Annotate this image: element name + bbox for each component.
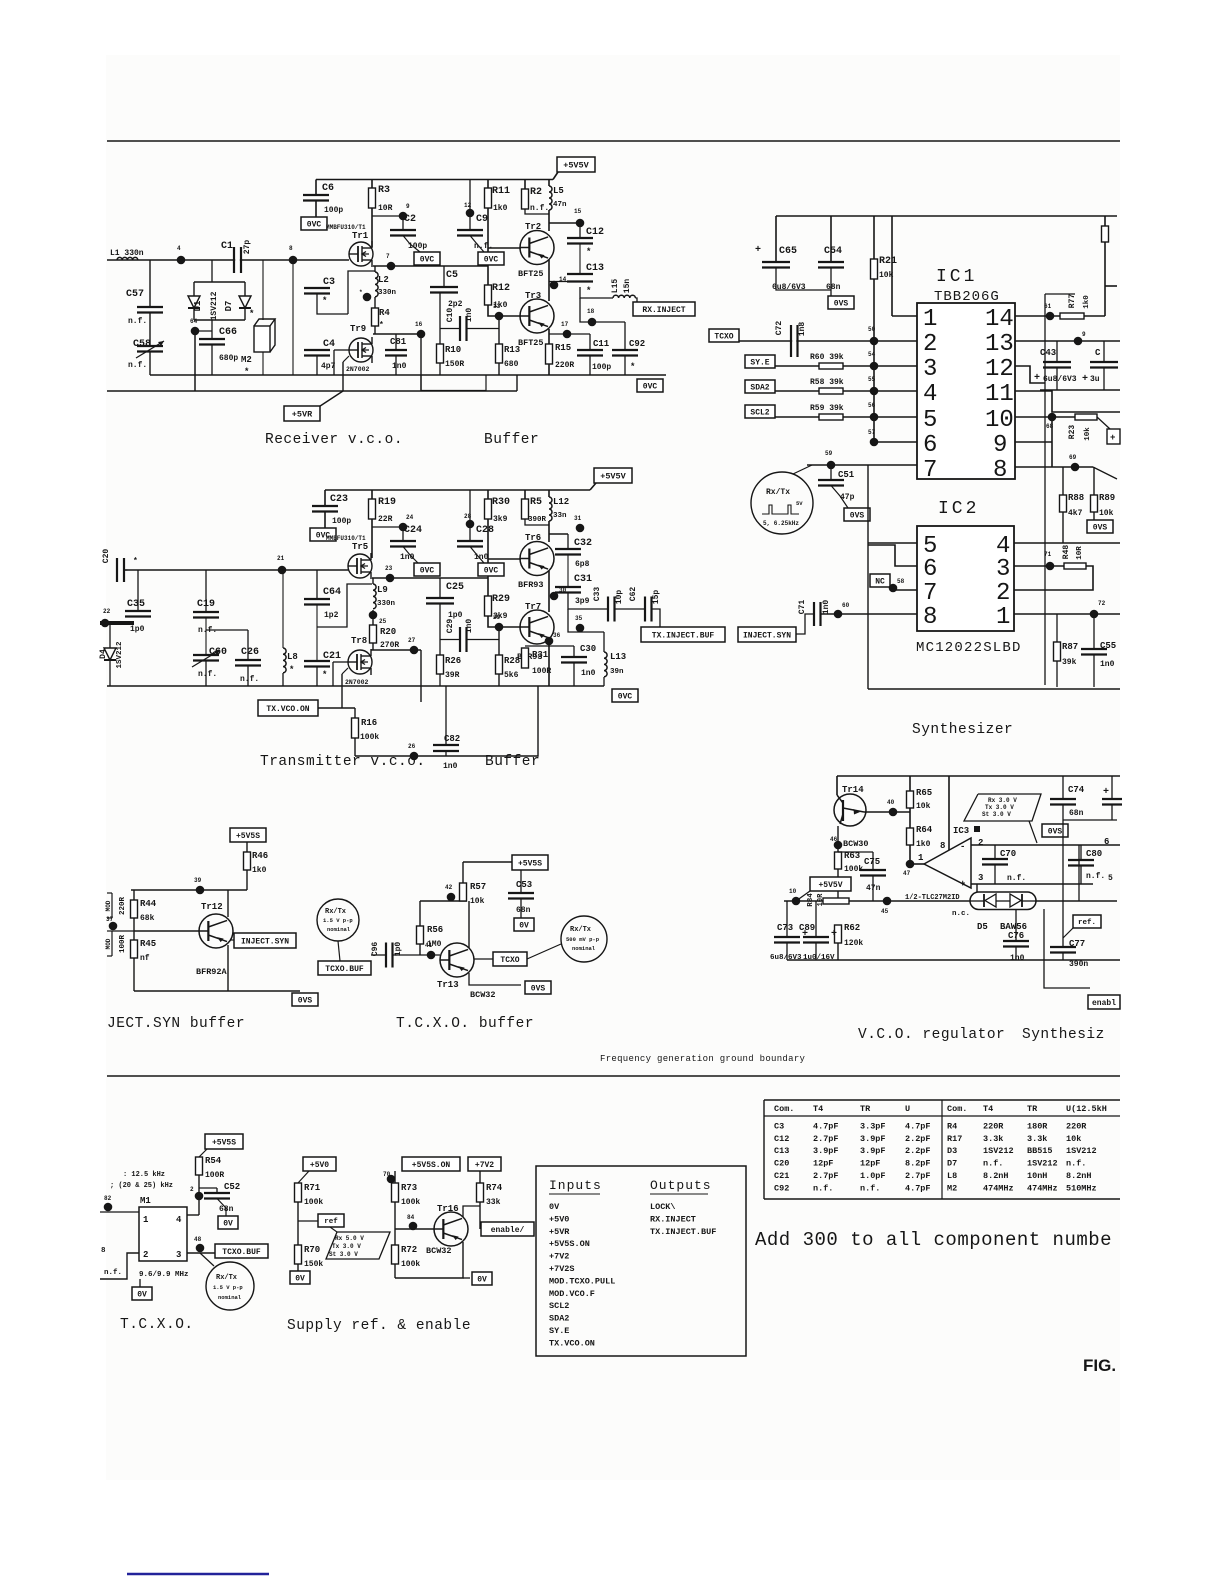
svg-text:Tr12: Tr12 bbox=[201, 902, 223, 912]
resistor R65 bbox=[909, 776, 911, 791]
Tr13 emitter to 0VS bbox=[469, 973, 521, 985]
INJECT.SYN output label bbox=[230, 939, 234, 941]
+5V5S label tcxo buf bbox=[463, 861, 512, 863]
resistor R3 bbox=[371, 180, 373, 189]
svg-text:0VC: 0VC bbox=[484, 255, 499, 264]
svg-text:1n0: 1n0 bbox=[465, 619, 474, 634]
svg-text:R59 39k: R59 39k bbox=[810, 404, 844, 413]
0V label supply bbox=[472, 1272, 492, 1285]
svg-text:R71: R71 bbox=[304, 1183, 321, 1193]
svg-text:ref: ref bbox=[324, 1218, 338, 1226]
node 42 wire bbox=[420, 900, 467, 902]
svg-text:C72: C72 bbox=[775, 321, 784, 336]
node 59 bbox=[827, 461, 836, 470]
resistor R72 bbox=[392, 1245, 399, 1264]
svg-text:Buffer: Buffer bbox=[484, 432, 539, 448]
svg-text:2.7pF: 2.7pF bbox=[813, 1171, 839, 1181]
svg-text:1M0: 1M0 bbox=[427, 940, 442, 949]
svg-text:C4: C4 bbox=[323, 339, 335, 350]
resistor R15 bbox=[546, 344, 553, 364]
enable output label bbox=[481, 1222, 534, 1236]
svg-text:C51: C51 bbox=[838, 470, 855, 480]
svg-text:27p: 27p bbox=[243, 240, 252, 255]
svg-text:100p: 100p bbox=[324, 206, 343, 215]
resistor R20 bbox=[370, 625, 377, 643]
svg-text:8: 8 bbox=[993, 457, 1007, 484]
IC2 pin8 wire bbox=[796, 614, 814, 634]
svg-text:69: 69 bbox=[1069, 454, 1077, 461]
svg-text:47n: 47n bbox=[553, 201, 567, 209]
svg-text:R48: R48 bbox=[1062, 545, 1071, 560]
svg-text:R11: R11 bbox=[492, 186, 510, 197]
svg-text:R4: R4 bbox=[947, 1121, 957, 1131]
svg-text:+: + bbox=[1082, 374, 1088, 385]
svg-text:Buffer: Buffer bbox=[485, 754, 540, 770]
svg-text:10k: 10k bbox=[1066, 1134, 1081, 1144]
wire to node 31 bbox=[549, 533, 568, 535]
svg-text:C75: C75 bbox=[864, 857, 880, 867]
svg-text:R77: R77 bbox=[1068, 294, 1077, 309]
SDA2 input label bbox=[745, 380, 775, 393]
svg-text:0V: 0V bbox=[223, 1219, 233, 1228]
resistor R21 bbox=[873, 216, 875, 259]
node 82 bbox=[100, 1211, 139, 1213]
svg-text:*: * bbox=[630, 362, 635, 372]
wire to Tr2 base bbox=[488, 247, 521, 249]
wire TCXO to pin2 bbox=[739, 340, 917, 342]
capacitor C5 bbox=[443, 266, 445, 287]
node 36 bbox=[525, 645, 574, 647]
svg-text:10k: 10k bbox=[1084, 427, 1092, 441]
TX.INJECT.BUF output label bbox=[641, 627, 725, 642]
svg-text:C66: C66 bbox=[219, 327, 237, 338]
svg-text:150k: 150k bbox=[304, 1260, 323, 1269]
resistor R73 bbox=[392, 1183, 399, 1202]
svg-text:15p: 15p bbox=[652, 590, 661, 605]
TCXO output label bbox=[474, 958, 493, 960]
svg-text:28: 28 bbox=[464, 513, 472, 520]
svg-text:9.6/9.9 MHz: 9.6/9.9 MHz bbox=[139, 1271, 189, 1279]
NC label bbox=[870, 574, 890, 587]
svg-text:8.2nH: 8.2nH bbox=[983, 1171, 1009, 1181]
svg-text:1SV212: 1SV212 bbox=[210, 291, 219, 320]
svg-text:+5V5V: +5V5V bbox=[818, 881, 842, 890]
resistor R88 bbox=[1062, 467, 1064, 495]
svg-text:M2: M2 bbox=[241, 355, 252, 365]
svg-text:n.f.: n.f. bbox=[1066, 1159, 1086, 1169]
svg-text:37: 37 bbox=[106, 916, 114, 923]
M1 pin3 wire to TCXO.BUF bbox=[187, 1252, 215, 1254]
svg-text:+5V5V: +5V5V bbox=[563, 161, 589, 171]
svg-text:8: 8 bbox=[940, 841, 945, 851]
svg-text:C52: C52 bbox=[224, 1182, 240, 1192]
svg-text:14: 14 bbox=[985, 306, 1014, 333]
resistor R30 bbox=[487, 490, 489, 499]
resistor R76 top right bbox=[1104, 216, 1106, 226]
svg-text:R57: R57 bbox=[470, 882, 486, 892]
capacitor C53 bbox=[520, 870, 522, 893]
svg-text:220R: 220R bbox=[1066, 1121, 1087, 1131]
resistor R57 bbox=[462, 862, 464, 883]
svg-text:L12: L12 bbox=[553, 497, 569, 507]
svg-text:C54: C54 bbox=[824, 246, 842, 257]
svg-text:390n: 390n bbox=[1069, 960, 1088, 969]
svg-text:1k0: 1k0 bbox=[252, 866, 267, 875]
resistor R46 bbox=[246, 842, 248, 852]
svg-text:MOD.TCXO.PULL: MOD.TCXO.PULL bbox=[549, 1276, 615, 1286]
svg-text:; (20 & 25) kHz: ; (20 & 25) kHz bbox=[110, 1182, 173, 1190]
svg-text:L8: L8 bbox=[947, 1171, 957, 1181]
svg-text:+: + bbox=[1103, 787, 1109, 798]
svg-text:220R: 220R bbox=[983, 1121, 1004, 1131]
node 28 and capacitor C28 bbox=[469, 490, 471, 541]
svg-text:100k: 100k bbox=[401, 1260, 420, 1269]
svg-text:C6: C6 bbox=[322, 183, 334, 194]
svg-text:1: 1 bbox=[143, 1215, 149, 1225]
svg-text:Inputs: Inputs bbox=[549, 1178, 602, 1193]
svg-text:IC2: IC2 bbox=[938, 499, 979, 519]
pin9 wire bbox=[1015, 441, 1052, 443]
inductor L5 bbox=[548, 180, 550, 187]
+5VR label bbox=[311, 391, 343, 412]
wire R20 bottom to node 27 bbox=[371, 649, 421, 651]
svg-text:0VC: 0VC bbox=[420, 566, 435, 575]
svg-text:Rx/Tx: Rx/Tx bbox=[325, 908, 347, 916]
svg-text:R20: R20 bbox=[380, 627, 396, 637]
svg-text:+5V5S: +5V5S bbox=[518, 859, 542, 868]
0V label under C53 bbox=[514, 918, 534, 931]
svg-text:C19: C19 bbox=[197, 599, 215, 610]
svg-text:R3: R3 bbox=[378, 185, 390, 196]
svg-text:0VS: 0VS bbox=[1048, 827, 1063, 836]
capacitor C51 bbox=[830, 465, 832, 480]
svg-text:nf: nf bbox=[140, 954, 150, 963]
ref label bbox=[298, 1220, 318, 1222]
svg-text:4: 4 bbox=[176, 1215, 182, 1225]
svg-text:25: 25 bbox=[379, 618, 387, 625]
0VC label under C6 bbox=[301, 217, 327, 230]
vco regulator top rail bbox=[837, 775, 1120, 777]
svg-text:1SV212: 1SV212 bbox=[983, 1146, 1014, 1156]
svg-text:L2: L2 bbox=[378, 275, 389, 285]
svg-text:46: 46 bbox=[830, 836, 838, 843]
svg-text:2: 2 bbox=[978, 838, 983, 848]
resistor R2 bbox=[524, 180, 526, 190]
pin12 wire bbox=[1015, 366, 1045, 383]
capacitor C25 bbox=[439, 578, 441, 598]
svg-text:M1: M1 bbox=[140, 1196, 151, 1206]
svg-text:nominal: nominal bbox=[327, 926, 351, 933]
svg-text:R64: R64 bbox=[916, 825, 933, 835]
svg-text:ref.: ref. bbox=[1078, 919, 1096, 927]
svg-text:1SV212: 1SV212 bbox=[116, 641, 124, 669]
svg-text:RX.INJECT: RX.INJECT bbox=[642, 306, 685, 315]
svg-text:R87: R87 bbox=[1062, 642, 1078, 652]
trimmer C58 bbox=[149, 313, 151, 347]
svg-text:C74: C74 bbox=[1068, 785, 1085, 795]
svg-text:510MHz: 510MHz bbox=[1066, 1183, 1097, 1193]
ref label with pointer bbox=[1073, 915, 1101, 928]
svg-text:100p: 100p bbox=[592, 363, 611, 372]
node 72 bbox=[1090, 610, 1099, 619]
svg-text:RX.INJECT: RX.INJECT bbox=[650, 1214, 696, 1224]
svg-text:T.C.X.O.: T.C.X.O. bbox=[120, 1317, 194, 1333]
svg-text:T4: T4 bbox=[983, 1104, 993, 1114]
svg-text:R89: R89 bbox=[1099, 493, 1115, 503]
svg-text:390R: 390R bbox=[528, 516, 547, 524]
svg-text:C23: C23 bbox=[330, 494, 348, 505]
wire main gate line transmitter vco bbox=[128, 569, 349, 571]
svg-text:12: 12 bbox=[985, 356, 1014, 383]
svg-text:BB515: BB515 bbox=[1027, 1146, 1053, 1156]
svg-text:0VS: 0VS bbox=[850, 511, 865, 520]
svg-text:3.3pF: 3.3pF bbox=[860, 1121, 886, 1131]
svg-text:220R: 220R bbox=[555, 361, 574, 370]
IC2 pin4 wire bbox=[1014, 542, 1120, 544]
svg-text:R4: R4 bbox=[379, 308, 390, 318]
svg-text:C24: C24 bbox=[404, 525, 422, 536]
svg-text:R62: R62 bbox=[844, 923, 860, 933]
0VC label under C23 bbox=[310, 528, 336, 541]
svg-text:6p8: 6p8 bbox=[575, 560, 590, 569]
svg-text:Com.: Com. bbox=[774, 1104, 794, 1114]
svg-text:SY.E: SY.E bbox=[750, 358, 769, 367]
svg-text:150R: 150R bbox=[445, 360, 464, 369]
svg-text:5, 6.25kHz: 5, 6.25kHz bbox=[763, 520, 799, 527]
+5V5S label bbox=[230, 828, 266, 842]
node 70 bbox=[394, 1171, 396, 1183]
svg-text:BCW32: BCW32 bbox=[470, 990, 496, 1000]
node 12 and capacitor C9 bbox=[469, 180, 471, 231]
svg-text:L1 330n: L1 330n bbox=[110, 249, 144, 258]
svg-text:n.c.: n.c. bbox=[952, 910, 970, 918]
svg-text:55: 55 bbox=[868, 376, 876, 383]
svg-text:Tr5: Tr5 bbox=[352, 542, 368, 552]
svg-text:+: + bbox=[1110, 433, 1115, 443]
svg-text:10k: 10k bbox=[1099, 509, 1114, 518]
wire C3 bias link bbox=[317, 294, 348, 315]
capacitor C19 bbox=[205, 570, 207, 612]
node 60 bbox=[834, 610, 843, 619]
svg-text:+5V0: +5V0 bbox=[549, 1214, 569, 1224]
wire C31 to C33 bbox=[568, 593, 608, 610]
svg-text:C3: C3 bbox=[323, 277, 335, 288]
node 37 bbox=[112, 930, 134, 932]
capacitor C64 bbox=[316, 570, 318, 599]
svg-text:TCXO: TCXO bbox=[500, 956, 519, 965]
svg-text:TCXO.BUF: TCXO.BUF bbox=[325, 965, 364, 974]
svg-text:R72: R72 bbox=[401, 1245, 417, 1255]
svg-text:R46: R46 bbox=[252, 851, 268, 861]
svg-text:R16: R16 bbox=[361, 718, 377, 728]
svg-text:n.f.: n.f. bbox=[104, 1269, 122, 1277]
RxTx circle tcxo buf right bbox=[561, 916, 607, 962]
wire to C13 bbox=[549, 281, 568, 283]
svg-text:n.f.: n.f. bbox=[240, 675, 259, 684]
svg-text:D3: D3 bbox=[947, 1146, 957, 1156]
node 64 bbox=[211, 320, 213, 331]
varactor diodes D1 D7 1SV212 bbox=[211, 260, 213, 282]
capacitor C10 series bbox=[440, 328, 460, 330]
diode pair D5 BAW56 bbox=[1036, 900, 1117, 902]
svg-text:10R: 10R bbox=[378, 204, 393, 213]
svg-text:1k0: 1k0 bbox=[916, 840, 931, 849]
svg-text:1n0: 1n0 bbox=[822, 600, 831, 615]
node 31 bbox=[576, 524, 585, 533]
svg-text:0VS: 0VS bbox=[298, 996, 313, 1005]
svg-text:C81: C81 bbox=[390, 337, 407, 347]
svg-text:57: 57 bbox=[868, 429, 876, 436]
svg-text:C: C bbox=[1095, 348, 1101, 358]
capacitor C29 series bbox=[440, 639, 460, 641]
svg-text:R70: R70 bbox=[304, 1245, 320, 1255]
node 57 wire to pin6 bbox=[874, 441, 917, 443]
node 58 bbox=[889, 584, 898, 593]
svg-text:Receiver v.c.o.: Receiver v.c.o. bbox=[265, 432, 403, 448]
svg-text:R84: R84 bbox=[807, 893, 815, 907]
svg-text:Tx 3.0 V: Tx 3.0 V bbox=[985, 804, 1014, 811]
svg-text:4.7pF: 4.7pF bbox=[905, 1121, 931, 1131]
svg-text:27: 27 bbox=[408, 637, 416, 644]
svg-text:n.f.: n.f. bbox=[1086, 872, 1105, 881]
svg-text:+5V5S: +5V5S bbox=[212, 1138, 236, 1147]
svg-text:0VC: 0VC bbox=[307, 220, 322, 229]
svg-text:SDA2: SDA2 bbox=[750, 383, 769, 392]
svg-text:R73: R73 bbox=[401, 1183, 417, 1193]
svg-text:C11: C11 bbox=[593, 339, 610, 349]
svg-text:39: 39 bbox=[194, 877, 202, 884]
RxTx circle tcxo bbox=[200, 1253, 214, 1266]
svg-text:SY.E: SY.E bbox=[549, 1326, 569, 1336]
capacitor C26 bbox=[247, 630, 249, 660]
wire R3 to C2 bbox=[372, 215, 403, 217]
node L9-R20 bbox=[369, 611, 378, 620]
svg-text:330n: 330n bbox=[378, 289, 397, 297]
node 35 bbox=[568, 609, 604, 632]
svg-text:R23: R23 bbox=[1068, 425, 1077, 440]
IC2 pin5 wire bbox=[868, 542, 917, 544]
node 23 bbox=[386, 574, 395, 583]
svg-text:680: 680 bbox=[504, 360, 519, 369]
top border rule bbox=[107, 140, 1120, 142]
svg-text:47: 47 bbox=[903, 870, 911, 877]
svg-text:35: 35 bbox=[575, 615, 583, 622]
node 29 bbox=[495, 623, 504, 632]
svg-text:Add 300 to all component numbe: Add 300 to all component numbe bbox=[755, 1229, 1112, 1251]
inductor L9 bbox=[372, 578, 374, 584]
node 41 bbox=[427, 951, 436, 960]
svg-text:C53: C53 bbox=[516, 880, 532, 890]
node 30 bbox=[550, 592, 559, 601]
node 13 bbox=[495, 312, 504, 321]
svg-text:1: 1 bbox=[923, 306, 937, 333]
svg-text:4: 4 bbox=[177, 245, 181, 252]
svg-text:5k6: 5k6 bbox=[504, 671, 519, 680]
resistor R58 39k bbox=[775, 390, 917, 392]
svg-text:BCW32: BCW32 bbox=[426, 1246, 452, 1256]
svg-text:St 3.0 V: St 3.0 V bbox=[329, 1251, 358, 1258]
capacitor C43 bbox=[1056, 341, 1058, 362]
bottom blue underline bbox=[127, 1573, 269, 1576]
svg-text:4.7pF: 4.7pF bbox=[813, 1121, 839, 1131]
svg-text:Synthesiz: Synthesiz bbox=[1022, 1027, 1105, 1043]
svg-text:C30: C30 bbox=[580, 644, 596, 654]
svg-text:10R: 10R bbox=[1076, 546, 1084, 560]
svg-text:8.2nH: 8.2nH bbox=[1066, 1171, 1092, 1181]
tx vco top rail bbox=[325, 489, 590, 491]
node 84 bbox=[409, 1222, 418, 1231]
0VS label tcxo buf bbox=[525, 981, 551, 994]
svg-text:-: - bbox=[960, 842, 965, 852]
svg-text:12pF: 12pF bbox=[860, 1159, 880, 1169]
svg-text:+: + bbox=[960, 879, 965, 889]
svg-text:70: 70 bbox=[383, 1171, 391, 1178]
svg-text:n.f.: n.f. bbox=[813, 1183, 833, 1193]
wire Tr5 source to buffer bbox=[372, 577, 488, 579]
wire pin1 from rail bbox=[891, 216, 893, 316]
resistor R74 bbox=[479, 1171, 481, 1183]
svg-text:1p0: 1p0 bbox=[448, 611, 463, 620]
SCL2 input label bbox=[745, 405, 775, 418]
svg-text:0VC: 0VC bbox=[618, 692, 633, 701]
receiver lower wire +5VR net bbox=[107, 390, 517, 392]
node 56 bbox=[870, 413, 879, 422]
0VC label under C24 bbox=[414, 563, 440, 576]
svg-text:enabl: enabl bbox=[1092, 999, 1116, 1008]
inject syn buffer top wire bbox=[131, 889, 247, 891]
capacitor C2 bbox=[402, 216, 404, 230]
svg-text:72: 72 bbox=[1098, 600, 1106, 607]
node on R54 bbox=[195, 1192, 204, 1201]
wire node8 down bbox=[292, 260, 294, 375]
capacitor C65 bbox=[775, 216, 777, 262]
svg-text:R17: R17 bbox=[947, 1134, 962, 1144]
node 10 bbox=[792, 897, 801, 906]
svg-text:*: * bbox=[359, 289, 363, 296]
0VS label inject syn bbox=[292, 993, 318, 1006]
svg-text:C31: C31 bbox=[574, 574, 592, 585]
resistor R16 bbox=[354, 708, 356, 718]
svg-text:R2: R2 bbox=[530, 187, 542, 198]
svg-text:R56: R56 bbox=[427, 925, 443, 935]
svg-text:n.f.: n.f. bbox=[983, 1159, 1003, 1169]
inductor L8 bbox=[282, 570, 284, 648]
enable label cut bbox=[1088, 995, 1120, 1009]
svg-text:C76: C76 bbox=[1008, 931, 1024, 941]
pin8 wire bbox=[1015, 466, 1093, 468]
svg-text:Tr9: Tr9 bbox=[350, 324, 366, 334]
IC2 pin3 wire and resistor R48 bbox=[1014, 565, 1066, 567]
wire R4 bottom to node 16 bbox=[373, 333, 421, 335]
capacitor C32 bbox=[567, 534, 569, 549]
svg-text:+5V5S.ON: +5V5S.ON bbox=[549, 1239, 590, 1249]
0VS label regulator bbox=[1042, 824, 1068, 837]
svg-text:0V: 0V bbox=[477, 1275, 487, 1284]
resistor R71 bbox=[295, 1183, 302, 1202]
svg-text:*: * bbox=[289, 665, 294, 675]
svg-text:St 3.0 V: St 3.0 V bbox=[982, 811, 1011, 818]
svg-text:MMBFU310/T1: MMBFU310/T1 bbox=[326, 535, 366, 542]
svg-text:33k: 33k bbox=[486, 1198, 501, 1207]
svg-text:13: 13 bbox=[985, 331, 1014, 358]
svg-text:3: 3 bbox=[978, 873, 983, 883]
svg-text:R10: R10 bbox=[445, 345, 461, 355]
svg-text:10k: 10k bbox=[470, 897, 485, 906]
node 4 bbox=[177, 256, 186, 265]
svg-text:Rx 3.0 V: Rx 3.0 V bbox=[988, 797, 1017, 804]
svg-text:50: 50 bbox=[868, 326, 876, 333]
svg-text:*: * bbox=[249, 309, 254, 319]
